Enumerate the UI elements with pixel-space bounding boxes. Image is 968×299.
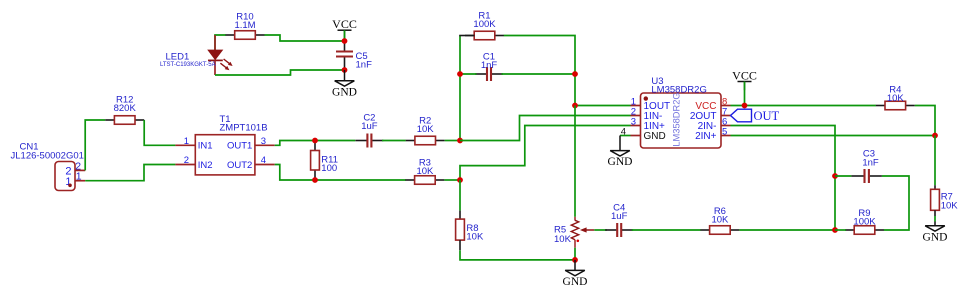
power VCC top [332, 17, 357, 41]
svg-text:10K: 10K [466, 232, 484, 243]
svg-text:100K: 100K [853, 216, 876, 227]
junction VCC pin8 [742, 103, 748, 109]
wire C2 to R2 [382, 140, 406, 142]
wire R1 right to C1 right rail [504, 36, 575, 106]
ground GND under R5 [563, 260, 588, 288]
resistor R10 1.1M [226, 12, 265, 40]
capacitor C1 1nF [475, 52, 503, 81]
resistor R7 10K vertical [931, 136, 959, 226]
svg-text:LM358DR2G: LM358DR2G [672, 92, 682, 146]
wire LED cathode to C5 bottom [215, 70, 345, 75]
resistor R8 10K [456, 180, 484, 250]
svg-text:IN2: IN2 [198, 160, 213, 171]
svg-text:JL126-50002G01: JL126-50002G01 [11, 150, 84, 161]
svg-text:GND: GND [644, 131, 666, 142]
resistor R11 100 [311, 141, 338, 181]
svg-text:LM358DR2G: LM358DR2G [651, 85, 706, 96]
wire 1OUT down to R5 [574, 106, 576, 217]
svg-text:3: 3 [631, 116, 636, 127]
svg-text:1: 1 [184, 136, 189, 147]
junction R11 bottom [312, 177, 318, 183]
wire C1 right [502, 73, 576, 75]
wire node B to U3 pin3 [460, 126, 631, 181]
svg-text:1nF: 1nF [481, 60, 498, 71]
net flag OUT [731, 109, 780, 123]
svg-text:10K: 10K [416, 166, 434, 177]
wire R5 wiper to C4 [594, 229, 607, 231]
junction 1OUT [572, 103, 578, 109]
wire C1 left [460, 73, 477, 75]
ground GND under R7 [923, 226, 948, 244]
wire node A to U3 pin2 [460, 116, 631, 141]
wire R5 bottom [574, 248, 576, 260]
capacitor C3 1nF [835, 149, 882, 183]
junction R5-GND [572, 257, 578, 263]
wire C3 right loop [882, 176, 909, 230]
junction R11 top [312, 138, 318, 144]
wire R12 right to T1 pin1 [144, 120, 175, 145]
svg-text:100K: 100K [473, 19, 496, 30]
resistor R6 10K [700, 206, 739, 234]
ground GND top [332, 70, 357, 98]
svg-text:ZMPT101B: ZMPT101B [220, 123, 268, 134]
wire LED anode to R10 left [215, 35, 226, 50]
wire CN1 pin1 to T1 pin2 [85, 165, 175, 181]
svg-text:1.1M: 1.1M [234, 20, 255, 31]
svg-text:OUT: OUT [754, 109, 780, 123]
wire C4 to R6 [632, 229, 701, 231]
capacitor C4 1uF [605, 202, 633, 237]
wire U3 pin6 to node C [731, 126, 836, 231]
wire R9 left [835, 229, 846, 231]
junction divider [932, 133, 938, 139]
svg-text:100: 100 [321, 163, 337, 174]
wire R6 to node C [739, 229, 835, 231]
svg-text:2: 2 [184, 155, 189, 166]
wire U3 pin8 rail [731, 105, 876, 107]
resistor R9 100K [845, 208, 884, 234]
wire CN1 pin2 to R12 left [85, 120, 105, 170]
wire R3 to node B [444, 179, 460, 181]
wire R2 to node A [445, 140, 460, 142]
wire R4 to divider node [915, 106, 935, 136]
potentiometer R5 10K [554, 217, 594, 248]
transformer T1 ZMPT101B [175, 114, 274, 175]
svg-text:4: 4 [261, 155, 266, 166]
resistor R12 820K [105, 95, 144, 125]
junction C1 left [457, 71, 463, 77]
wire R8 to GND rail [460, 250, 575, 260]
svg-text:1uF: 1uF [361, 121, 378, 132]
junction R3 node [457, 177, 463, 183]
svg-text:OUT2: OUT2 [227, 160, 252, 171]
wire R10 right to VCC junction [265, 35, 345, 41]
junction VCC-C5 [342, 38, 348, 44]
svg-text:10K: 10K [417, 124, 435, 135]
junction R2 node [457, 138, 463, 144]
wire 1OUT junction to U3 pin1 [575, 105, 631, 107]
resistor R4 10K [876, 85, 915, 110]
svg-text:GND: GND [563, 276, 588, 288]
node A vertical [459, 36, 461, 141]
svg-text:1nF: 1nF [862, 157, 879, 168]
wire U3 pin4 to GND [620, 135, 631, 137]
svg-text:2IN+: 2IN+ [695, 131, 717, 142]
svg-text:1uF: 1uF [611, 211, 628, 222]
ground GND under U3 [608, 136, 633, 169]
capacitor C5 1nF [336, 41, 372, 71]
svg-text:5: 5 [722, 126, 727, 137]
svg-text:VCC: VCC [732, 68, 757, 82]
svg-text:1nF: 1nF [356, 60, 373, 71]
wire T1 pin3 to top rail [275, 141, 356, 146]
resistor R1 100K [465, 10, 504, 39]
svg-text:10K: 10K [711, 215, 729, 226]
junction C3 left [832, 173, 838, 179]
svg-text:VCC: VCC [332, 17, 357, 31]
junction C1 right [572, 71, 578, 77]
connector CN1 JL126-50002G01 [11, 142, 86, 191]
svg-text:OUT1: OUT1 [227, 141, 252, 152]
LED LED1 LTST-C193KGKT-5A [160, 50, 233, 75]
wire LED anode lead [214, 35, 216, 50]
svg-text:IN1: IN1 [198, 141, 213, 152]
wire R1 left lead [459, 35, 474, 37]
junction C5-GND [342, 67, 348, 73]
wire T1 pin4 to bottom rail [275, 165, 406, 181]
resistor R3 10K [405, 158, 444, 185]
resistor R2 10K [406, 115, 445, 144]
svg-text:GND: GND [923, 231, 948, 243]
svg-text:3: 3 [261, 136, 266, 147]
svg-text:GND: GND [608, 156, 633, 168]
power VCC at U3 [732, 68, 757, 105]
op-amp U3 LM358DR2G [621, 76, 731, 148]
svg-text:10K: 10K [554, 234, 572, 245]
svg-text:820K: 820K [114, 103, 137, 114]
svg-text:GND: GND [332, 86, 357, 98]
svg-text:10K: 10K [941, 200, 959, 211]
svg-text:1: 1 [76, 171, 82, 183]
wire U3 pin5 to divider node [731, 135, 936, 137]
capacitor C2 1uF [355, 113, 383, 148]
svg-text:LTST-C193KGKT-5A: LTST-C193KGKT-5A [160, 62, 216, 68]
junction node C [832, 227, 838, 233]
svg-text:10K: 10K [887, 93, 905, 104]
